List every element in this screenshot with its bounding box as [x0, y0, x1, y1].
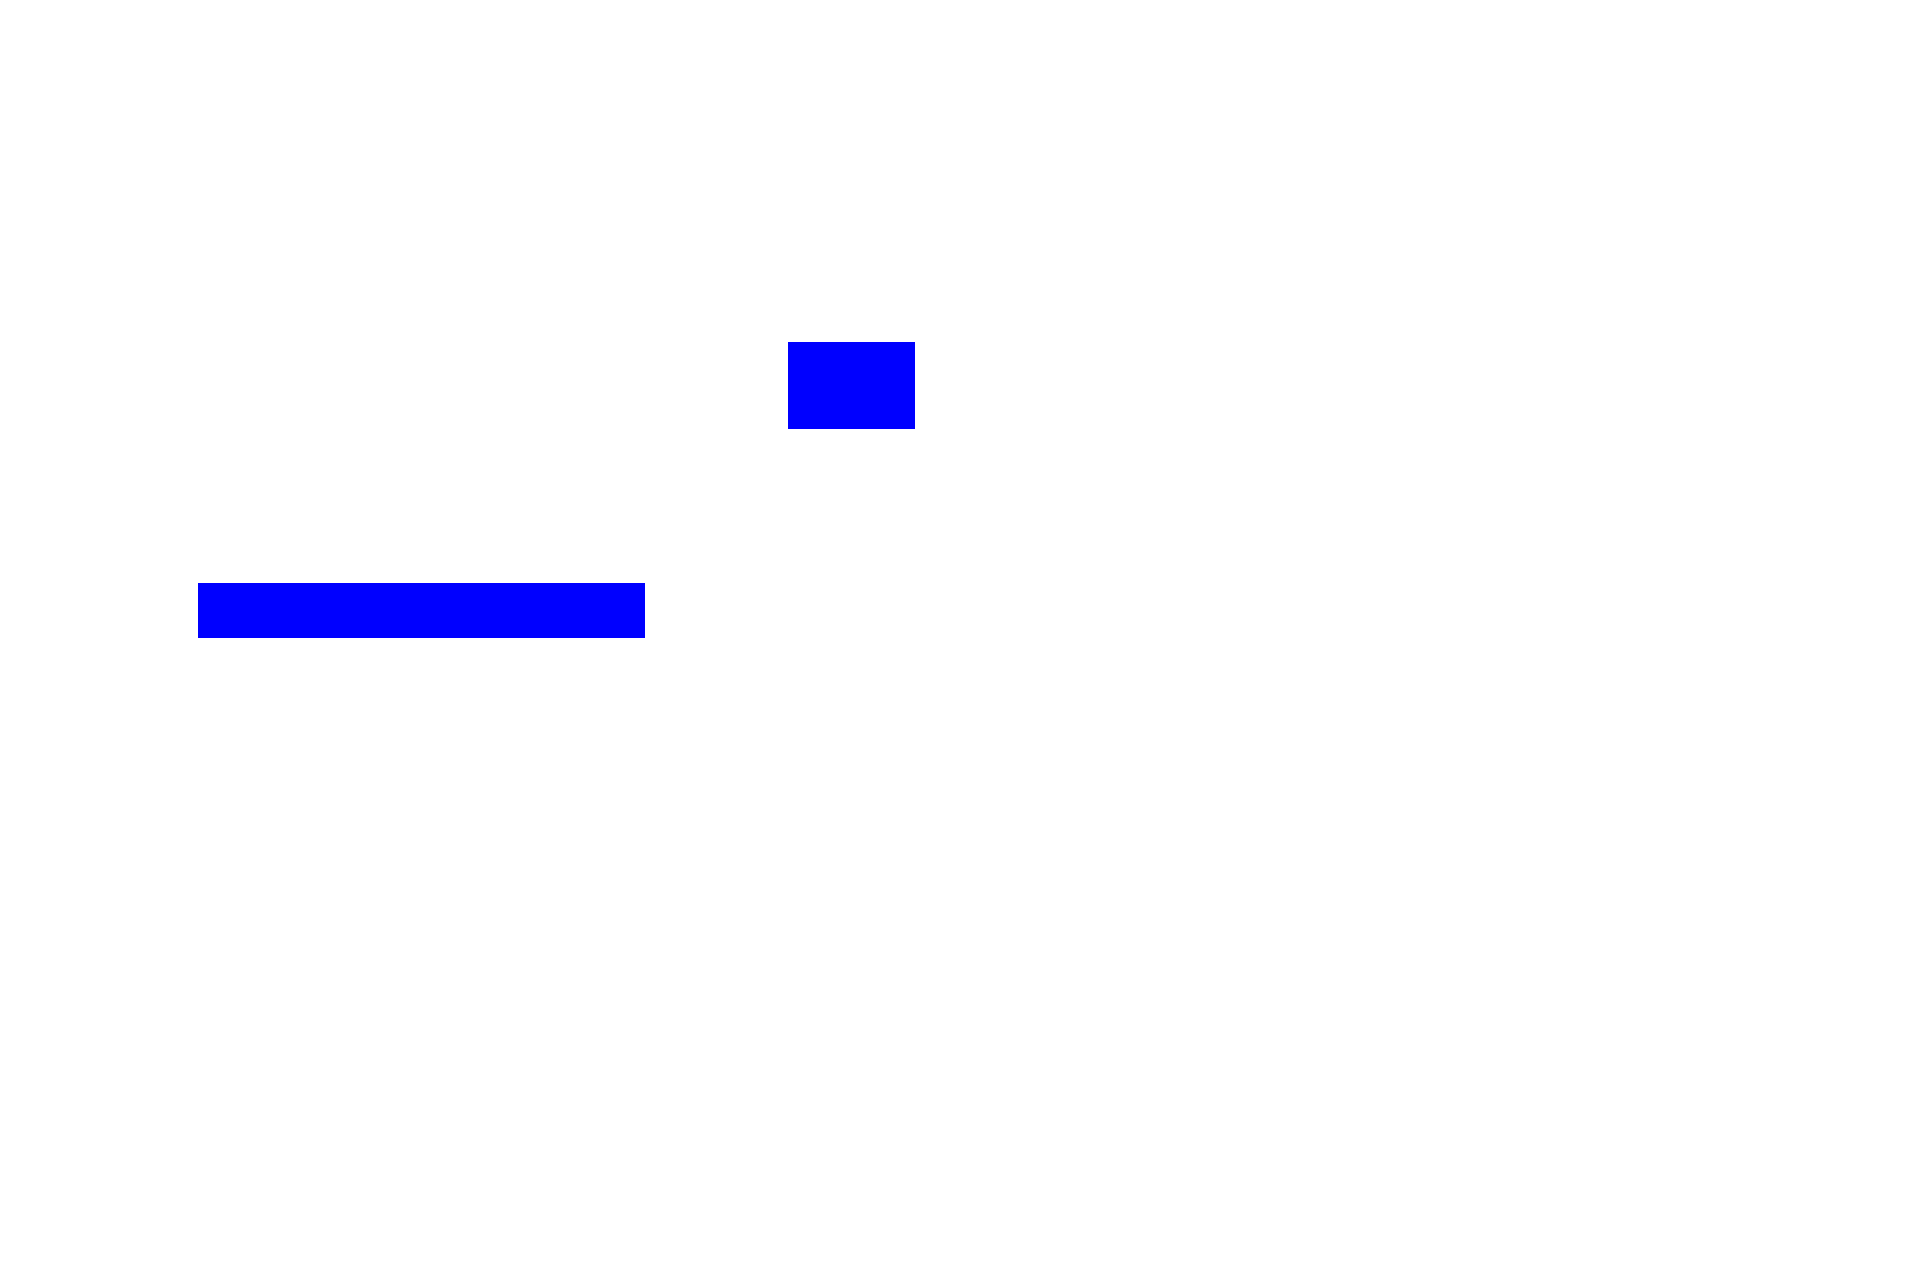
blue rectangle A (small, upper middle) [788, 342, 915, 429]
blue rectangle B (wide bar, center left) [198, 583, 645, 638]
